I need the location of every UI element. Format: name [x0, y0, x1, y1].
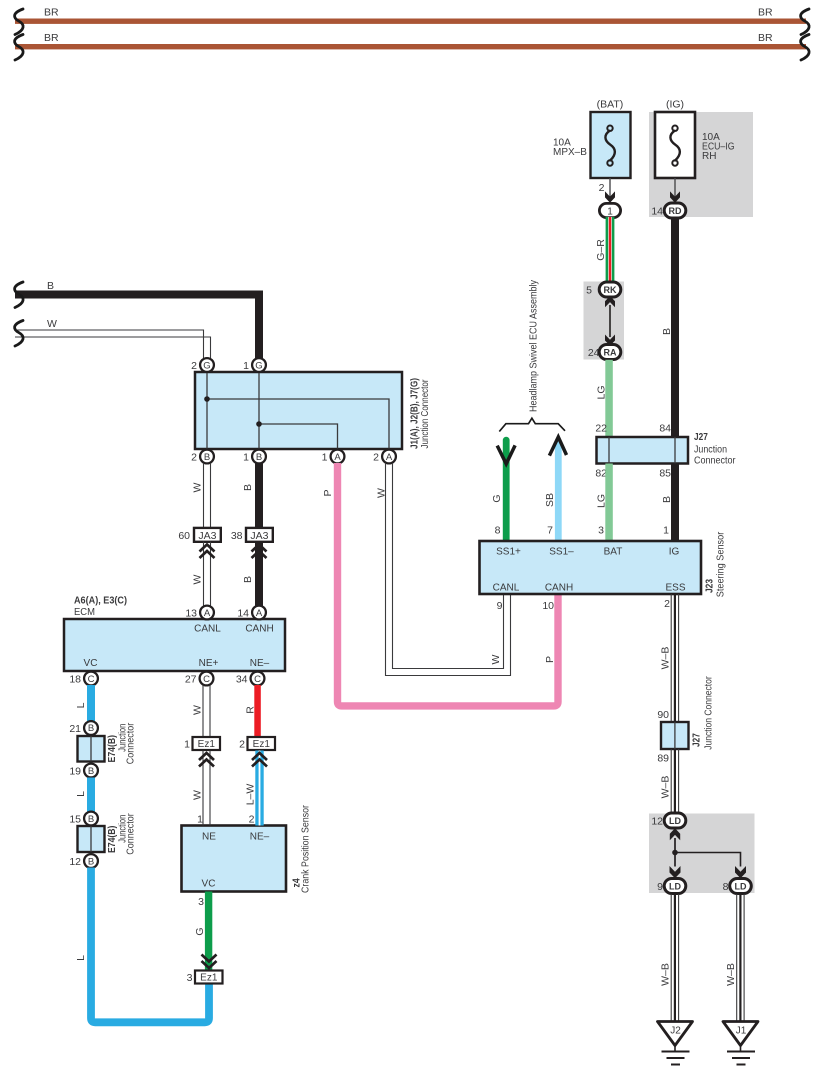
svg-text:2: 2 — [191, 452, 197, 464]
terminal oval RD — [664, 203, 686, 218]
svg-text:L: L — [75, 955, 87, 961]
svg-text:18: 18 — [69, 674, 81, 686]
svg-text:38: 38 — [231, 530, 243, 542]
svg-text:12: 12 — [651, 816, 663, 828]
svg-text:5: 5 — [586, 285, 592, 297]
chevron JA3 60 — [200, 545, 215, 559]
fuse MPX-B box — [591, 112, 631, 178]
svg-text:W–B: W–B — [660, 647, 672, 670]
svg-text:J23: J23 — [704, 579, 716, 593]
svg-text:1: 1 — [243, 360, 249, 372]
chevron Ez1 2 — [252, 753, 267, 767]
ground J2 — [658, 1022, 693, 1065]
wire B 1B to JA3 — [255, 463, 263, 529]
svg-text:1: 1 — [243, 452, 249, 464]
svg-text:1: 1 — [322, 452, 328, 464]
svg-text:2: 2 — [239, 739, 245, 751]
connector Ez1 pin 2 — [248, 737, 276, 750]
svg-text:Ez1: Ez1 — [200, 973, 218, 984]
svg-text:14: 14 — [237, 608, 249, 620]
svg-text:VC: VC — [84, 658, 98, 669]
break symbol right of BR1 — [801, 9, 810, 35]
arrow into terminal 1 — [605, 191, 615, 202]
svg-text:9: 9 — [657, 881, 663, 893]
arrow up on SB wire — [549, 437, 566, 456]
svg-text:NE–: NE– — [250, 832, 270, 843]
svg-text:W: W — [47, 318, 57, 330]
svg-text:10: 10 — [542, 600, 554, 612]
junction dot 2G — [204, 396, 210, 402]
svg-text:C: C — [88, 674, 95, 685]
svg-text:2: 2 — [191, 360, 197, 372]
svg-text:B: B — [661, 496, 673, 503]
svg-text:J1: J1 — [736, 1026, 747, 1037]
wire L 19B to 15B — [87, 778, 95, 813]
internal wire 2G-2B — [206, 372, 208, 449]
wire W JA3 to ECM 13 — [204, 542, 211, 607]
svg-text:Steering Sensor: Steering Sensor — [716, 531, 727, 597]
svg-text:A: A — [256, 608, 263, 619]
junction connector J27 box (upper) — [597, 437, 689, 464]
arrow into terminal RD — [670, 191, 680, 202]
junction connector J1(A) J2(B) J7(G) box — [195, 372, 402, 449]
J27 internal wire B — [674, 437, 676, 464]
svg-text:Ez1: Ez1 — [198, 739, 216, 750]
svg-text:3: 3 — [198, 896, 204, 908]
wire SB to SS1- — [555, 441, 562, 541]
svg-text:W–B: W–B — [660, 776, 672, 799]
svg-text:2: 2 — [249, 814, 255, 826]
wire G VC to Ez1 3 — [205, 892, 212, 971]
svg-text:LG: LG — [596, 494, 608, 508]
svg-text:(BAT): (BAT) — [597, 99, 624, 111]
wire LG RA to J27 — [605, 360, 613, 438]
arrow up into LD 12 — [670, 828, 680, 840]
svg-text:A6(A), E3(C): A6(A), E3(C) — [74, 595, 127, 607]
svg-text:Connector: Connector — [125, 813, 136, 855]
svg-text:3: 3 — [187, 972, 193, 984]
junction connector E74(B) box 2 — [78, 826, 105, 852]
internal wire to 1A — [259, 424, 338, 449]
terminal oval LD 12 — [664, 813, 686, 828]
crank position sensor box — [182, 826, 287, 892]
svg-text:1: 1 — [184, 739, 190, 751]
svg-text:22: 22 — [595, 423, 607, 435]
fuse ECU-IG element — [670, 126, 679, 166]
svg-text:BR: BR — [44, 7, 59, 19]
wire W-B J27 to LD 12 — [671, 749, 678, 814]
svg-text:Headlamp Swivel ECU Assembly: Headlamp Swivel ECU Assembly — [529, 280, 540, 412]
terminal 1G — [252, 358, 266, 372]
terminal 19B — [84, 764, 98, 778]
chevron Ez1 3 (down) — [202, 955, 217, 969]
terminal 15B — [84, 812, 98, 826]
link wire to LD8 branch — [675, 853, 741, 867]
svg-text:RD: RD — [669, 206, 682, 216]
svg-text:7: 7 — [547, 525, 553, 537]
svg-text:2: 2 — [664, 598, 670, 610]
svg-text:Connector: Connector — [694, 456, 736, 467]
svg-text:LD: LD — [669, 816, 681, 826]
wire W 27C to Ez1 1 — [203, 685, 210, 737]
svg-text:G: G — [491, 494, 503, 502]
wire B J27 to IG pin 1 — [671, 464, 679, 542]
connector Ez1 pin 3 — [195, 971, 223, 984]
svg-text:J1(A), J2(B), J7(G): J1(A), J2(B), J7(G) — [409, 378, 421, 449]
svg-text:1: 1 — [607, 206, 613, 217]
svg-text:Junction: Junction — [694, 445, 727, 456]
svg-text:B: B — [256, 452, 262, 463]
terminal 2A — [382, 450, 396, 464]
brace headlamp assembly — [499, 418, 565, 431]
svg-text:(IG): (IG) — [666, 99, 684, 111]
wire fuse ECU-IG to terminal RD — [674, 178, 676, 197]
svg-text:1: 1 — [197, 814, 203, 826]
terminal 21B — [84, 721, 98, 735]
svg-text:G: G — [194, 927, 206, 935]
svg-text:G: G — [255, 361, 262, 372]
svg-text:12: 12 — [69, 856, 81, 868]
steering sensor J23 box — [480, 541, 702, 594]
svg-text:LD: LD — [735, 882, 747, 892]
svg-text:84: 84 — [659, 423, 671, 435]
terminal 18C — [84, 672, 98, 686]
svg-text:SS1+: SS1+ — [496, 547, 521, 558]
wire B RD to J27 — [671, 218, 679, 438]
svg-text:NE–: NE– — [250, 658, 270, 669]
wire W-B LD8 to ground J1 — [737, 894, 744, 1022]
svg-text:BR: BR — [44, 32, 59, 44]
svg-text:G–R: G–R — [595, 239, 607, 261]
svg-text:ESS: ESS — [665, 583, 685, 594]
terminal 13A — [200, 606, 214, 620]
svg-text:L: L — [75, 702, 87, 708]
wire R 34C to Ez1 2 — [254, 685, 260, 737]
internal wire 1G-1B — [258, 372, 260, 449]
svg-text:8: 8 — [495, 525, 501, 537]
svg-text:Connector: Connector — [125, 722, 136, 764]
svg-text:15: 15 — [69, 814, 81, 826]
svg-text:Junction Connector: Junction Connector — [704, 676, 715, 750]
svg-text:G: G — [203, 361, 210, 372]
connector JA3 pin 38 — [246, 528, 273, 542]
svg-text:B: B — [242, 484, 254, 491]
svg-text:ECM: ECM — [74, 606, 95, 618]
svg-text:RK: RK — [604, 285, 617, 295]
svg-text:1: 1 — [663, 525, 669, 537]
svg-text:MPX–B: MPX–B — [553, 147, 587, 158]
arrow into LD 9 — [670, 866, 681, 878]
terminal 2G — [200, 358, 214, 372]
wire W-B ESS to J27 — [671, 594, 678, 722]
svg-text:27: 27 — [185, 674, 197, 686]
wire W top-left (double line) — [15, 330, 211, 359]
svg-text:B: B — [88, 857, 94, 868]
svg-text:A: A — [386, 452, 393, 463]
svg-text:L: L — [75, 791, 87, 797]
junction connector J27 box (lower) — [661, 722, 689, 749]
wire B top-left horizontal — [15, 295, 259, 359]
svg-text:CANL: CANL — [194, 624, 221, 635]
gray block behind ECU-IG fuse — [649, 112, 753, 217]
svg-text:Crank Position Sensor: Crank Position Sensor — [301, 804, 312, 893]
svg-text:Ez1: Ez1 — [253, 739, 271, 750]
break symbol left of BR2 — [15, 35, 24, 61]
svg-text:21: 21 — [69, 723, 81, 735]
break symbol right of BR2 — [801, 35, 810, 61]
terminal oval LD 8 — [730, 879, 752, 894]
svg-text:J27: J27 — [691, 733, 703, 747]
svg-text:JA3: JA3 — [250, 530, 268, 542]
svg-text:B: B — [242, 576, 254, 583]
svg-text:A: A — [334, 452, 341, 463]
svg-text:W: W — [376, 488, 388, 498]
svg-text:89: 89 — [657, 753, 669, 765]
svg-text:A: A — [204, 608, 211, 619]
break symbol B wire — [15, 282, 24, 308]
svg-text:W: W — [192, 790, 204, 800]
wire W-B LD9 to ground J2 — [671, 894, 678, 1022]
wire W 2B to JA3 — [204, 463, 211, 529]
junction connector E74(B) box 1 — [78, 736, 105, 762]
gray block LD — [649, 814, 755, 894]
svg-text:19: 19 — [69, 766, 81, 778]
svg-text:C: C — [203, 674, 210, 685]
terminal oval 1 — [599, 203, 620, 217]
svg-text:BAT: BAT — [604, 547, 623, 558]
wire P 1A to CANH — [338, 463, 559, 706]
arrow down into RA — [605, 335, 615, 346]
svg-text:W–B: W–B — [660, 963, 672, 986]
svg-text:SB: SB — [544, 493, 556, 507]
terminal 34C — [251, 672, 265, 686]
terminal oval RA — [599, 345, 621, 360]
svg-text:CANL: CANL — [493, 583, 520, 594]
arrow into LD 8 — [735, 866, 746, 878]
svg-text:14: 14 — [651, 206, 663, 218]
svg-text:SS1–: SS1– — [549, 547, 574, 558]
internal wire to 2A — [207, 399, 389, 449]
terminal 12B — [84, 854, 98, 868]
svg-text:2: 2 — [599, 182, 605, 194]
terminal oval RK — [599, 282, 621, 297]
wire L 18C to 21B — [87, 685, 95, 721]
wire L 12B to Ez1 3 — [91, 868, 209, 1023]
ground J1 — [723, 1022, 758, 1065]
svg-text:60: 60 — [178, 530, 190, 542]
break symbol left of BR1 — [15, 9, 24, 35]
arrow up from RK link — [605, 296, 615, 307]
svg-text:LD: LD — [669, 882, 681, 892]
wire G-R terminal 1 to RK — [606, 217, 615, 283]
svg-text:85: 85 — [659, 468, 671, 480]
terminal 14A — [252, 606, 266, 620]
svg-text:2: 2 — [373, 452, 379, 464]
svg-text:B: B — [88, 723, 94, 734]
svg-text:13: 13 — [185, 608, 197, 620]
svg-text:VC: VC — [202, 879, 216, 890]
wire fuse MPX-B to terminal 1 — [609, 178, 611, 197]
terminal 27C — [200, 672, 214, 686]
fuse ECU-IG box — [655, 112, 695, 178]
svg-text:W: W — [192, 574, 204, 584]
J27 internal wire LG — [608, 437, 610, 464]
svg-text:L–W: L–W — [245, 784, 257, 806]
svg-text:JA3: JA3 — [198, 530, 216, 542]
fuse MPX-B element — [605, 126, 614, 166]
junction dot 1G — [256, 421, 262, 427]
svg-text:CANH: CANH — [245, 624, 273, 635]
wire W 2A to CANL — [386, 463, 511, 676]
terminal oval LD 9 — [664, 879, 686, 894]
svg-text:Junction Connector: Junction Connector — [420, 379, 431, 449]
wire BR top 2 — [15, 44, 806, 49]
svg-text:8: 8 — [723, 881, 729, 893]
svg-text:W–B: W–B — [725, 963, 737, 986]
svg-text:E74(B): E74(B) — [106, 735, 118, 763]
wire W Ez1 to NE pin 1 — [203, 751, 210, 826]
wire LG J27 to BAT pin 3 — [605, 464, 613, 542]
svg-text:NE+: NE+ — [199, 658, 219, 669]
svg-text:B: B — [47, 280, 54, 292]
svg-text:W: W — [192, 705, 204, 715]
svg-text:BR: BR — [758, 7, 773, 19]
svg-text:90: 90 — [657, 709, 669, 721]
junction dot LD — [672, 850, 678, 856]
svg-text:J2: J2 — [670, 1026, 681, 1037]
svg-text:B: B — [88, 814, 94, 825]
svg-text:R: R — [245, 706, 257, 714]
wire G to SS1+ — [503, 440, 510, 541]
svg-text:W: W — [192, 482, 204, 492]
svg-text:RH: RH — [702, 151, 716, 162]
svg-text:P: P — [544, 656, 556, 663]
arrow down on G wire — [497, 445, 515, 464]
svg-text:C: C — [254, 674, 261, 685]
svg-text:9: 9 — [497, 600, 503, 612]
svg-text:J27: J27 — [694, 431, 708, 443]
svg-text:W: W — [490, 654, 502, 664]
svg-text:RA: RA — [604, 348, 617, 358]
chevron JA3 38 — [252, 545, 267, 559]
ECM box — [64, 619, 285, 671]
wire B JA3 to ECM 14 — [255, 542, 263, 607]
wire L-W Ez1 to NE- pin 2 — [255, 751, 263, 826]
chevron Ez1 1 — [199, 753, 214, 767]
svg-text:34: 34 — [236, 674, 248, 686]
terminal 1B — [252, 450, 266, 464]
svg-text:E74(B): E74(B) — [106, 826, 118, 854]
connector JA3 pin 60 — [194, 528, 221, 542]
svg-text:B: B — [661, 328, 673, 335]
svg-text:CANH: CANH — [545, 583, 573, 594]
link wire LD12 to junction — [674, 838, 676, 867]
svg-text:B: B — [204, 452, 210, 463]
terminal 1A — [331, 450, 345, 464]
wire BR top 1 — [15, 19, 806, 24]
svg-text:NE: NE — [202, 832, 216, 843]
svg-text:3: 3 — [598, 525, 604, 537]
svg-text:B: B — [88, 766, 94, 777]
svg-text:IG: IG — [669, 547, 680, 558]
link wire RK to RA — [609, 305, 611, 337]
connector Ez1 pin 1 — [193, 737, 221, 750]
svg-text:P: P — [322, 489, 334, 496]
terminal 2B — [200, 450, 214, 464]
gray block behind RK RA — [584, 282, 625, 360]
svg-text:LG: LG — [596, 385, 608, 399]
svg-text:BR: BR — [758, 32, 773, 44]
break symbol W wire — [15, 321, 24, 347]
